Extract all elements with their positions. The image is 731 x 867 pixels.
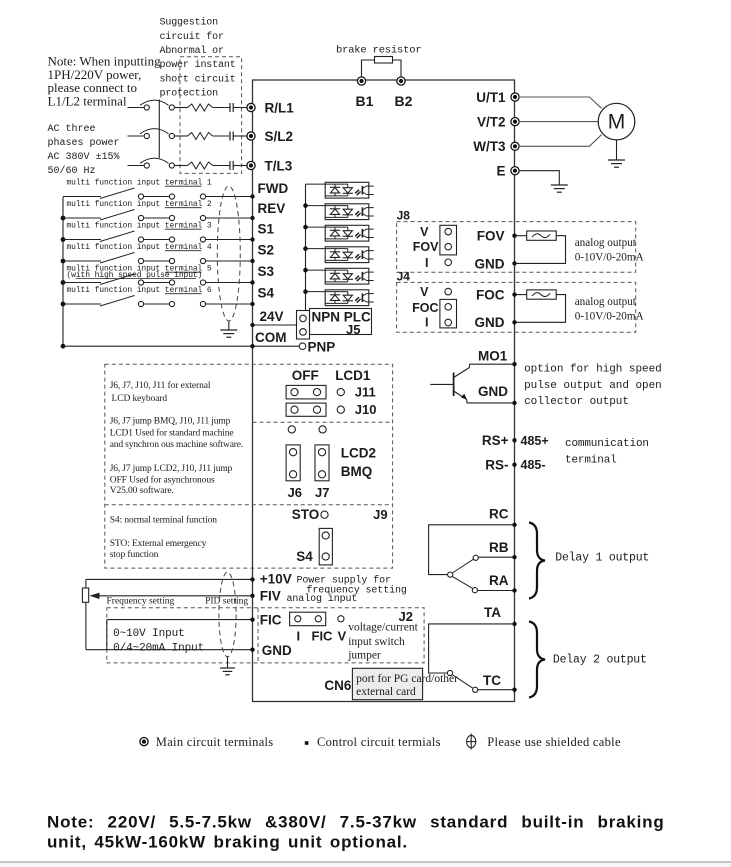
svg-text:M: M — [608, 111, 626, 134]
svg-text:option for high speed: option for high speed — [524, 363, 662, 375]
pin STO — [321, 511, 328, 518]
wire GND analog — [86, 649, 253, 651]
junction box edge S4 — [250, 302, 254, 306]
wire bus to switch S3 — [63, 282, 101, 284]
junction +10V — [250, 577, 254, 581]
wire between contacts REV — [144, 217, 169, 219]
ground E — [551, 184, 568, 186]
wire U/T1 to motor — [519, 97, 602, 108]
shielded cable ellipse analog — [219, 572, 236, 657]
opto coupler S1 — [325, 225, 374, 241]
switch circles S2 — [138, 258, 143, 263]
ganged switch link line — [158, 100, 160, 159]
svg-text:J8: J8 — [397, 209, 411, 223]
svg-text:collector output: collector output — [524, 396, 629, 408]
jumper S4 block — [319, 528, 332, 565]
svg-text:Power supply for: Power supply for — [297, 574, 392, 586]
wire GND MO1 — [467, 402, 515, 404]
opto top stub S1 — [306, 226, 326, 228]
svg-text:I: I — [297, 628, 301, 643]
svg-text:LCD1: LCD1 — [335, 368, 371, 383]
junction GND J4 — [512, 320, 516, 324]
bottom note text — [47, 813, 665, 852]
terminal V/T2 — [511, 118, 519, 126]
pin PNP — [299, 343, 306, 350]
legend control circuit dot — [305, 741, 309, 745]
opto top stub REV — [306, 205, 326, 207]
switch circles REV — [138, 215, 143, 220]
svg-text:B1: B1 — [356, 93, 374, 109]
svg-text:MO1: MO1 — [478, 349, 508, 364]
svg-text:S4: normal terminal function: S4: normal terminal function — [110, 514, 218, 525]
svg-text:NPN PLC: NPN PLC — [312, 310, 372, 325]
switch blade S2 — [100, 253, 135, 264]
jumper block J5 pins — [297, 311, 310, 340]
junction RA — [512, 588, 516, 592]
jumper J8 block — [440, 225, 457, 255]
svg-text:stop function: stop function — [110, 549, 159, 560]
wire FOC loop — [515, 294, 527, 296]
opto top stub S3 — [306, 269, 326, 271]
svg-text:0-10V/0-20mA: 0-10V/0-20mA — [575, 311, 644, 323]
wire RC to relay common — [429, 525, 515, 575]
capacitor snubber T/L3 — [229, 161, 231, 170]
svg-text:pulse output and open: pulse output and open — [524, 380, 662, 392]
shielded cable ellipse digital inputs — [217, 186, 240, 321]
wire between contacts S1 — [144, 239, 169, 241]
svg-text:TC: TC — [483, 673, 501, 688]
brace delay 1 — [529, 523, 545, 599]
svg-text:0/4~20mA Input: 0/4~20mA Input — [113, 643, 204, 655]
svg-text:LCD keyboard: LCD keyboard — [112, 394, 168, 404]
svg-text:V/T2: V/T2 — [477, 115, 506, 130]
svg-text:brake resistor: brake resistor — [336, 44, 421, 56]
svg-text:S1: S1 — [258, 222, 275, 237]
left bus wire digital inputs — [62, 197, 64, 346]
wire contact to box S2 — [206, 260, 253, 262]
jumper J11 block — [286, 385, 326, 399]
svg-text:FIC: FIC — [312, 628, 334, 643]
svg-text:analog input: analog input — [287, 593, 358, 605]
junction FOV — [512, 234, 516, 238]
wire 24V — [253, 324, 297, 326]
svg-text:analog output: analog output — [575, 237, 637, 249]
wire shield analog to ground — [227, 657, 229, 668]
svg-text:BMQ: BMQ — [341, 464, 373, 479]
divider dashed 1 — [253, 421, 393, 423]
svg-text:phases power: phases power — [48, 137, 120, 149]
svg-text:AC 380V ±15%: AC 380V ±15% — [48, 152, 120, 163]
wire contact to box S3 — [206, 282, 253, 284]
wire MO1 — [469, 363, 514, 365]
svg-text:OFF Used for asynchronous: OFF Used for asynchronous — [110, 474, 215, 485]
switch circles S4 — [138, 301, 143, 306]
wire resistor to capacitor T/L3 — [213, 165, 230, 167]
opto coupler S2 — [325, 247, 374, 263]
junction RS+ — [512, 438, 516, 442]
svg-text:J5: J5 — [346, 322, 360, 337]
text J6 J7 J10 J11 for external LCD keyboard — [110, 380, 211, 404]
jumper J10 block — [286, 403, 326, 416]
wire input feed S/L2 — [128, 135, 145, 137]
svg-text:FOC: FOC — [476, 288, 505, 303]
junction box edge REV — [250, 216, 254, 220]
junction TC — [512, 688, 516, 692]
svg-text:S4: S4 — [258, 285, 275, 300]
svg-text:I: I — [425, 256, 428, 270]
meter J4 — [527, 290, 557, 299]
text J6 J7 jump BMQ — [110, 417, 243, 450]
relay1 contact RA — [472, 588, 477, 593]
svg-text:J6: J6 — [288, 485, 302, 500]
wire resistor to capacitor S/L2 — [213, 135, 230, 137]
wire between contacts S4 — [144, 303, 169, 305]
wire between contacts FWD — [144, 196, 169, 198]
svg-text:V25.00 software.: V25.00 software. — [110, 485, 174, 496]
svg-text:B2: B2 — [395, 93, 413, 109]
svg-text:and synchron ous machine softw: and synchron ous machine software. — [110, 439, 243, 450]
junction opto common S2 — [303, 246, 308, 251]
relay2 contact TC — [473, 687, 478, 692]
wire switch to resistor T/L3 — [174, 165, 187, 167]
jumper J4 block — [445, 288, 452, 295]
opto top stub FWD — [306, 183, 326, 185]
svg-text:E: E — [496, 164, 505, 179]
svg-text:RS-: RS- — [485, 458, 508, 473]
svg-text:FOV: FOV — [477, 229, 505, 244]
junction bus row S2 — [61, 259, 66, 264]
text voltage current input switch jumper — [347, 622, 418, 662]
svg-text:Delay 2 output: Delay 2 output — [553, 654, 647, 667]
wire W/T3 to motor — [519, 135, 602, 147]
opto coupler S4 — [325, 290, 374, 306]
svg-text:PID setting: PID setting — [205, 597, 248, 607]
junction RB — [512, 555, 516, 559]
svg-text:V: V — [338, 628, 347, 643]
pin J10 — [337, 406, 344, 413]
svg-text:FIC: FIC — [260, 613, 282, 628]
svg-text:PNP: PNP — [308, 339, 336, 354]
junction opto common REV — [303, 203, 308, 208]
wire TA to relay2 common — [429, 624, 515, 673]
svg-text:S3: S3 — [258, 264, 275, 279]
svg-text:V: V — [420, 285, 429, 299]
svg-text:port for PG card/other: port for PG card/other — [356, 673, 458, 685]
svg-text:J6, J7 jump BMQ, J10, J11 jump: J6, J7 jump BMQ, J10, J11 jump — [110, 417, 231, 427]
wire B2 to brake resistor — [393, 60, 402, 80]
svg-text:unit, 45kW-160kW braking unit: unit, 45kW-160kW braking unit optional. — [47, 833, 408, 852]
wire between contacts S3 — [144, 282, 169, 284]
terminal S/L2 — [247, 132, 255, 140]
jumper settings dashed box — [105, 364, 393, 568]
wire FIC — [107, 619, 253, 621]
wire B1 to brake resistor — [362, 60, 375, 80]
label I FIC V — [297, 628, 347, 643]
svg-text:power instant: power instant — [160, 59, 236, 71]
svg-text:RS+: RS+ — [482, 433, 509, 448]
J4 dashed box — [397, 282, 636, 332]
resistor snubber S/L2 — [188, 133, 213, 140]
wire bus to switch S1 — [63, 239, 101, 241]
wire meter J8 to GND — [515, 236, 566, 264]
text STO external emergency stop — [110, 539, 207, 560]
svg-text:S/L2: S/L2 — [265, 129, 294, 144]
svg-text:CN6: CN6 — [324, 678, 351, 693]
relay1 lever to RB — [452, 559, 473, 573]
pin J7 top — [319, 426, 326, 433]
wire COM — [253, 345, 300, 347]
junction GND MO1 — [512, 401, 516, 405]
svg-text:Suggestion: Suggestion — [160, 17, 219, 29]
svg-text:Frequency setting: Frequency setting — [107, 597, 175, 607]
switch contact circles R/L1 — [144, 105, 149, 110]
junction TA — [512, 622, 516, 626]
J8 dashed box — [397, 222, 636, 273]
svg-text:TA: TA — [484, 605, 501, 620]
wire resistor to capacitor R/L1 — [213, 107, 230, 109]
svg-text:GND: GND — [262, 643, 292, 658]
svg-text:FIV: FIV — [260, 589, 281, 604]
svg-text:J10: J10 — [355, 402, 377, 417]
svg-text:protection: protection — [160, 88, 219, 100]
svg-text:OFF: OFF — [292, 368, 319, 383]
svg-text:STO: External emergency: STO: External emergency — [110, 539, 207, 549]
svg-text:Main circuit terminals: Main circuit terminals — [156, 735, 274, 749]
junction MO1 — [512, 362, 516, 366]
relay2 pivot — [447, 670, 452, 675]
svg-text:jumper: jumper — [347, 650, 381, 662]
pin J11 — [337, 389, 344, 396]
svg-text:J6, J7, J10, J11 for external: J6, J7, J10, J11 for external — [110, 380, 211, 391]
junction bus row REV — [61, 216, 66, 221]
opto coupler S3 — [325, 268, 374, 284]
wire switch to resistor R/L1 — [174, 107, 187, 109]
jumper J6 block — [286, 445, 300, 481]
jumper J7 block — [315, 445, 329, 481]
svg-text:J7: J7 — [315, 485, 329, 500]
junction opto common S4 — [303, 289, 308, 294]
svg-text:LCD2: LCD2 — [341, 446, 376, 461]
svg-text:485-: 485- — [521, 458, 546, 472]
wire FOV loop — [515, 235, 527, 237]
svg-text:S4: S4 — [296, 549, 313, 564]
wire E to ground — [519, 171, 560, 185]
svg-text:Abnormal or: Abnormal or — [160, 45, 225, 57]
text J6 J7 jump LCD2 — [110, 464, 233, 496]
svg-text:LCD1 Used for standard machine: LCD1 Used for standard machine — [110, 428, 234, 439]
svg-text:V: V — [420, 225, 429, 239]
wire RB — [478, 556, 514, 558]
box port for PG card — [352, 668, 422, 699]
junction COM — [250, 344, 254, 348]
wire between contacts S2 — [144, 260, 169, 262]
junction box edge FWD — [250, 194, 254, 198]
switch circles FWD — [138, 194, 143, 199]
svg-text:voltage/current: voltage/current — [348, 622, 418, 634]
svg-text:GND: GND — [475, 315, 505, 330]
svg-text:T/L3: T/L3 — [265, 158, 293, 173]
wire switch to resistor S/L2 — [174, 135, 187, 137]
relay2 lever to TC — [452, 675, 473, 689]
text power supply for frequency setting — [297, 574, 407, 596]
svg-text:+10V: +10V — [260, 571, 292, 586]
note text 1PH/220V — [48, 54, 162, 109]
terminal T/L3 — [247, 161, 255, 169]
svg-text:communication: communication — [565, 438, 649, 450]
svg-text:GND: GND — [475, 256, 505, 271]
transistor MO1 — [430, 364, 469, 403]
svg-text:external card: external card — [356, 686, 416, 698]
junction GND analog — [250, 648, 254, 652]
svg-text:J4: J4 — [397, 269, 411, 283]
analog dashed box — [107, 608, 424, 663]
ground shield analog — [220, 667, 235, 669]
wire bus to switch S2 — [63, 260, 101, 262]
resistor snubber T/L3 — [188, 162, 213, 169]
wire capacitor to terminal S/L2 — [233, 135, 247, 137]
wire input feed T/L3 — [128, 165, 145, 167]
box NPN PLC J5 — [310, 309, 372, 335]
svg-text:FOC: FOC — [412, 301, 438, 315]
switch arc T/L3 — [140, 158, 169, 163]
svg-text:L1/L2 terminal: L1/L2 terminal — [48, 93, 127, 108]
wire capacitor to terminal T/L3 — [233, 165, 247, 167]
svg-text:W/T3: W/T3 — [473, 139, 506, 154]
svg-text:RB: RB — [489, 540, 509, 555]
switch arc S/L2 — [140, 129, 169, 134]
text option for high speed pulse output — [524, 363, 662, 408]
junction bus row S3 — [61, 280, 66, 285]
wire contact to box FWD — [206, 196, 253, 198]
svg-text:RC: RC — [489, 507, 509, 522]
legend shielded cable symbol — [467, 734, 476, 750]
wire TC — [478, 689, 515, 691]
junction bus row S1 — [61, 237, 66, 242]
svg-text:analog output: analog output — [575, 296, 637, 308]
switch blade S3 — [100, 274, 135, 285]
terminal E — [511, 167, 519, 175]
svg-text:0~10V Input: 0~10V Input — [113, 628, 185, 640]
svg-text:input switch: input switch — [348, 636, 405, 648]
wire bus to switch S4 — [63, 303, 101, 305]
wire contact to box S4 — [206, 303, 253, 305]
svg-text:I: I — [425, 316, 428, 330]
ground shield digital — [220, 329, 237, 331]
svg-text:Delay 1 output: Delay 1 output — [555, 551, 649, 564]
wire contact to box S1 — [206, 239, 253, 241]
svg-text:REV: REV — [258, 201, 286, 216]
svg-text:FOV: FOV — [413, 240, 439, 254]
brace delay 2 — [529, 622, 545, 698]
switch circles S3 — [138, 280, 143, 285]
bottom common wire to COM — [63, 345, 253, 347]
wire motor to ground — [616, 140, 618, 160]
pin J6 top — [288, 426, 295, 433]
svg-text:24V: 24V — [260, 309, 284, 324]
svg-text:circuit for: circuit for — [160, 31, 225, 43]
svg-text:S2: S2 — [258, 242, 275, 257]
opto top stub S4 — [306, 291, 326, 293]
terminal B2 — [397, 77, 405, 85]
wire bus to switch FWD — [63, 196, 101, 198]
svg-text:GND: GND — [478, 384, 508, 399]
svg-text:R/L1: R/L1 — [265, 100, 295, 115]
ground motor — [608, 159, 625, 161]
svg-text:J9: J9 — [373, 507, 387, 522]
svg-text:J11: J11 — [355, 385, 376, 400]
junction opto common S1 — [303, 225, 308, 230]
switch circles S1 — [138, 237, 143, 242]
junction GND J8 — [512, 261, 516, 265]
terminal U/T1 — [511, 93, 519, 101]
switch contact circles S/L2 — [144, 133, 149, 138]
opto coupler FWD — [325, 182, 374, 198]
jumper J2 block — [290, 612, 326, 626]
junction RC — [512, 523, 516, 527]
relay1 pivot — [448, 572, 453, 577]
svg-text:0-10V/0-20mA: 0-10V/0-20mA — [575, 252, 644, 264]
motor M — [598, 103, 635, 140]
capacitor snubber S/L2 — [229, 132, 231, 141]
svg-text:STO: STO — [292, 507, 320, 522]
switch blade S4 — [100, 296, 135, 307]
wire meter J4 to GND — [515, 295, 566, 323]
junction 24V — [250, 323, 254, 327]
terminal B1 — [357, 77, 365, 85]
relay1 lever to RA — [452, 576, 473, 588]
pin V J2 — [338, 616, 344, 622]
switch blade FWD — [100, 188, 135, 199]
junction FIC — [250, 617, 254, 621]
divider dashed 2 — [105, 504, 393, 506]
terminal R/L1 — [247, 103, 255, 111]
resistor snubber R/L1 — [188, 104, 213, 111]
svg-text:short circuit: short circuit — [160, 73, 236, 85]
wire shield to ground — [228, 321, 230, 330]
bottom separator line — [0, 861, 731, 863]
svg-text:Note: 220V/ 5.5-7.5kw &380V/ 7: Note: 220V/ 5.5-7.5kw &380V/ 7.5-37kw st… — [47, 813, 665, 832]
legend main circuit terminal symbol — [140, 738, 148, 746]
wire RA — [478, 590, 515, 592]
svg-text:Control circuit termials: Control circuit termials — [317, 735, 441, 749]
svg-text:AC three: AC three — [48, 123, 96, 135]
junction box edge S1 — [250, 237, 254, 241]
junction opto common S3 — [303, 268, 308, 273]
svg-text:J6, J7 jump LCD2, J10, J11 jum: J6, J7 jump LCD2, J10, J11 jump — [110, 464, 233, 474]
meter J8 — [527, 231, 557, 240]
opto coupler common line — [305, 184, 307, 311]
opto top stub S2 — [306, 248, 326, 250]
svg-text:COM: COM — [255, 330, 287, 345]
junction RS- — [512, 463, 516, 467]
junction FOC — [512, 292, 516, 296]
snubber dashed box — [180, 57, 242, 174]
wire V/T2 to motor — [519, 121, 599, 123]
svg-text:RA: RA — [489, 573, 509, 588]
switch contact circles T/L3 — [144, 163, 149, 168]
svg-text:U/T1: U/T1 — [476, 90, 506, 105]
text port for PG card — [356, 673, 458, 698]
svg-text:50/60 Hz: 50/60 Hz — [48, 165, 96, 177]
inverter main box outline — [253, 80, 515, 702]
junction box edge S2 — [250, 259, 254, 263]
svg-text:Please use shielded cable: Please use shielded cable — [487, 735, 621, 749]
potentiometer frequency setting — [82, 588, 88, 602]
wire capacitor to terminal R/L1 — [233, 107, 247, 109]
relay1 contact RB — [473, 555, 478, 560]
switch blade REV — [100, 210, 135, 221]
text communication terminal — [565, 438, 649, 467]
